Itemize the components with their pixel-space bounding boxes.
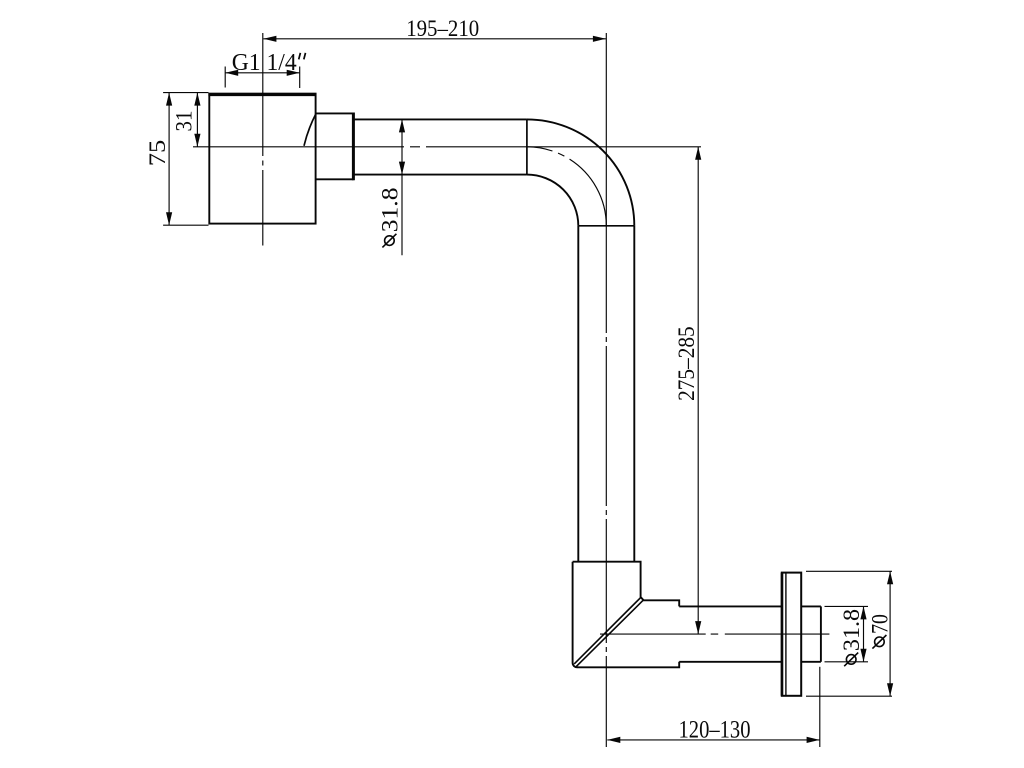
label inch double prime ticks [299,53,301,60]
dim G1 right extension [299,67,301,89]
dim 75 bottom extension [163,224,208,226]
dim 75 bottom arrow [166,212,172,225]
miter elbow block outline [573,562,680,668]
horizontal pipe bend tangent seam [526,119,528,175]
elbow centerline arc [527,147,606,226]
dim dia70 line [889,571,891,696]
dim dia70 top extension [806,570,892,572]
centerline vertical valve body [262,33,264,246]
dim dia31.8 wall up arrow [860,606,866,619]
dim G1 left extension [224,67,226,88]
dim 75 top arrow [166,93,172,106]
dim dia31.8 top pipe line [401,119,403,255]
label 275-285 [674,326,700,401]
horizontal pipe top edge [354,118,527,120]
dim 195-210 left arrow [263,36,276,42]
dim G1 1/4 line [225,72,300,74]
dim 195-210 right arrow [593,36,606,42]
svg-text:275–285: 275–285 [674,326,700,401]
boss fillet arc [304,114,316,146]
label 31 [172,111,198,132]
wall flange outline [782,573,801,696]
dim dia70 bottom extension [806,695,892,697]
centerline bottom pipe [600,633,829,635]
bottom pipe bottom edge [679,661,821,663]
dim 120-130 line [607,739,819,741]
dim 31 line [196,93,198,147]
wall flange lip inner line [785,573,787,696]
centerline vertical pipe [605,33,607,747]
vertical pipe left edge [577,226,579,562]
dim G1 left arrow [225,70,238,76]
dim 31 bottom arrow [194,134,200,147]
label dia31.8 wall pipe [839,609,865,666]
dim 275-285 bottom arrow [695,621,701,634]
dim 31 top arrow [194,93,200,106]
miter joint diagonal lower line [576,600,643,666]
dim 120-130 right arrow [807,737,820,743]
vertical pipe bend tangent seam [578,225,634,227]
valve body thick top edge [208,93,316,96]
label 75 [145,140,171,167]
dim dia70 down arrow [887,683,893,696]
dim dia31.8 top down arrow [399,162,405,175]
miter joint diagonal upper line [574,597,641,664]
boss bottom edge [316,178,354,180]
dim 275-285 line [697,147,699,634]
valve body block [209,94,315,224]
svg-text:31.8: 31.8 [839,609,865,651]
vertical pipe right edge [633,226,635,562]
svg-text:31.8: 31.8 [377,188,403,233]
elbow outer arc [527,119,634,225]
dim G1 right arrow [287,70,300,76]
dim dia31.8 wall down arrow [860,649,866,662]
svg-text:75: 75 [145,140,171,167]
label dia31.8 top pipe [377,188,403,248]
dim dia31.8 wall pipe bottom extension [825,661,869,663]
dim 120-130 left arrow [607,737,620,743]
bottom pipe end cap [820,606,822,661]
dim 275-285 top arrow [695,147,701,160]
dim dia31.8 top up arrow [399,119,405,132]
label dia70 [867,614,893,649]
boss right edge [352,113,355,181]
dim dia70 up arrow [887,571,893,584]
centerline horizontal top pipe [193,146,701,148]
svg-text:70: 70 [867,614,893,634]
dim 75 line [168,93,170,226]
dim 195-210 line [263,38,606,40]
wall flange left thick edge [781,573,784,696]
dim 120-130 right extension [819,667,821,747]
dim 75 top extension [163,92,208,94]
horizontal pipe bottom edge [354,174,527,176]
svg-text:G1 1/4: G1 1/4 [232,50,297,76]
bottom pipe top edge [679,605,821,607]
dim dia31.8 wall line [863,606,865,661]
svg-text:195–210: 195–210 [406,16,479,42]
svg-text:31: 31 [172,111,198,132]
elbow inner arc [527,175,578,226]
dim dia31.8 wall pipe top extension [825,605,869,607]
boss top edge [316,112,354,114]
svg-text:120–130: 120–130 [679,716,751,743]
